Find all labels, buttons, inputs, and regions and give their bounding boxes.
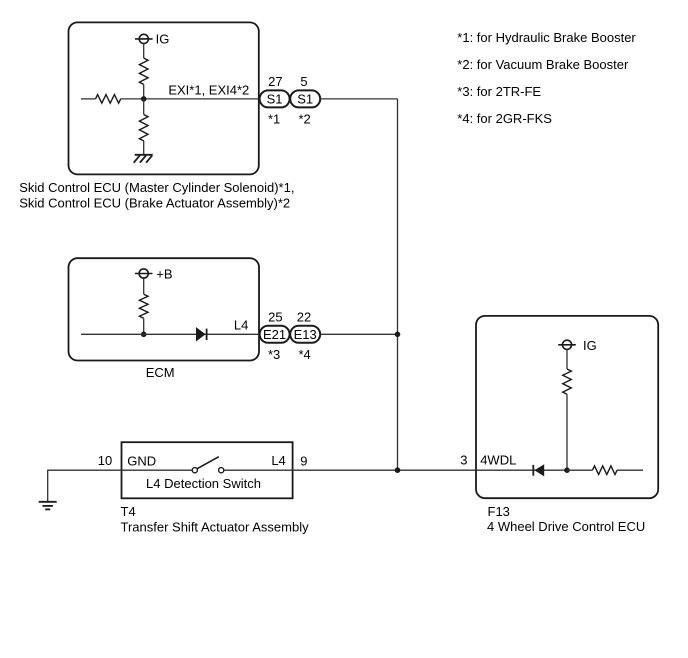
wire resistor to node A	[143, 84, 145, 99]
svg-text:*1: *1	[268, 112, 280, 127]
wire S1 to vertical bus	[320, 98, 397, 100]
svg-text:4WDL: 4WDL	[480, 453, 516, 468]
svg-text:Skid Control ECU (Master Cylin: Skid Control ECU (Master Cylinder Soleno…	[19, 180, 294, 195]
svg-text:9: 9	[300, 453, 307, 468]
svg-text:L4 Detection Switch: L4 Detection Switch	[146, 476, 261, 491]
terminal +B (ECM)	[135, 269, 153, 278]
ground (earth, T4 GND)	[39, 502, 57, 510]
svg-text:5: 5	[300, 74, 307, 89]
svg-text:GND: GND	[127, 454, 156, 469]
wire T4 pin 9 to F13 pin 3	[293, 469, 476, 471]
wire ECM output row	[81, 333, 260, 335]
resistor (IG pull-up, Skid Control ECU)	[139, 58, 148, 84]
svg-text:4 Wheel Drive Control ECU: 4 Wheel Drive Control ECU	[487, 519, 645, 534]
resistor (series, Skid Control ECU output)	[96, 95, 121, 104]
wire IG to resistor (F13)	[566, 350, 568, 369]
wire T4 internal left	[122, 469, 193, 471]
box F13 4 Wheel Drive Control ECU	[476, 316, 658, 498]
wire ground drop	[47, 470, 49, 502]
resistor (+B pull-up, ECM)	[139, 294, 148, 318]
svg-text:*3: for 2TR-FE: *3: for 2TR-FE	[457, 84, 541, 99]
node B junction dot	[141, 332, 147, 338]
svg-text:IG: IG	[583, 338, 597, 353]
wire resistor to connector S1	[121, 98, 260, 100]
diode D1 (ECM, anode left)	[196, 327, 207, 341]
diode D2 (F13, cathode left)	[533, 464, 544, 476]
ground (chassis, Skid Control ECU)	[134, 155, 153, 163]
svg-text:*4: *4	[298, 347, 310, 362]
svg-text:27: 27	[268, 74, 282, 89]
svg-text:*3: *3	[268, 347, 280, 362]
svg-text:*4: for 2GR-FKS: *4: for 2GR-FKS	[457, 111, 552, 126]
svg-text:*1: for Hydraulic Brake Booste: *1: for Hydraulic Brake Booster	[457, 30, 636, 45]
connector S1 pin 5 oval	[290, 90, 320, 107]
wire F13 internal row	[476, 469, 567, 471]
wire IG terminal to resistor	[143, 44, 145, 59]
svg-text:25: 25	[268, 310, 282, 325]
wire resistor to ground	[143, 141, 145, 155]
wire node E to resistor (F13)	[567, 469, 592, 471]
svg-text:Skid Control ECU (Brake Actuat: Skid Control ECU (Brake Actuator Assembl…	[19, 196, 290, 211]
connector E21 oval	[260, 326, 290, 343]
svg-text:*2: for Vacuum Brake Booster: *2: for Vacuum Brake Booster	[457, 57, 629, 72]
node D junction dot (bus / bottom row)	[395, 467, 401, 473]
svg-text:*2: *2	[298, 112, 310, 127]
switch lever	[197, 457, 219, 469]
resistor (IG pull-up, F13)	[563, 369, 572, 394]
terminal IG (Skid Control ECU)	[135, 34, 153, 43]
connector E13 oval	[290, 326, 320, 343]
svg-text:10: 10	[98, 453, 112, 468]
node A junction dot	[141, 96, 147, 102]
svg-text:F13: F13	[488, 504, 510, 519]
wire E13 to vertical bus	[320, 333, 397, 335]
svg-text:3: 3	[460, 452, 467, 467]
svg-text:S1: S1	[297, 92, 313, 107]
box Skid Control ECU U1	[69, 22, 259, 174]
terminal IG (F13)	[558, 340, 576, 349]
connector S1 pin 27 oval	[260, 90, 290, 107]
node C junction dot (bus / ECM row)	[395, 332, 401, 338]
svg-text:+B: +B	[156, 266, 172, 281]
svg-text:L4: L4	[271, 453, 285, 468]
wire resistor to node E (F13)	[566, 394, 568, 470]
svg-text:E13: E13	[294, 327, 317, 342]
wire +B to resistor	[143, 278, 145, 294]
wire resistor to stub end (F13)	[617, 469, 643, 471]
node E junction dot (F13)	[564, 467, 570, 473]
wire node A to lower resistor	[143, 99, 145, 115]
switch L4 detection (contacts)	[192, 468, 224, 473]
svg-text:EXI*1, EXI4*2: EXI*1, EXI4*2	[168, 82, 249, 97]
resistor (series, F13 lamp)	[592, 466, 617, 475]
wire ground to T4 pin 10	[48, 469, 122, 471]
wire T4 internal right	[224, 469, 293, 471]
svg-text:E21: E21	[263, 327, 286, 342]
svg-text:L4: L4	[234, 317, 248, 332]
svg-text:Transfer Shift Actuator Assemb: Transfer Shift Actuator Assembly	[121, 519, 310, 534]
box T4 Transfer Shift Actuator Assembly	[122, 442, 293, 498]
svg-text:22: 22	[297, 310, 311, 325]
box ECM	[69, 258, 260, 360]
svg-text:S1: S1	[267, 92, 283, 107]
svg-text:IG: IG	[156, 32, 170, 47]
resistor (pull-down to ground, Skid Control ECU)	[139, 115, 148, 141]
wire vertical bus	[397, 99, 399, 470]
svg-text:T4: T4	[121, 504, 136, 519]
wire resistor to node B	[143, 318, 145, 334]
svg-text:ECM: ECM	[146, 365, 175, 380]
wire stub left of horizontal resistor	[81, 98, 96, 100]
